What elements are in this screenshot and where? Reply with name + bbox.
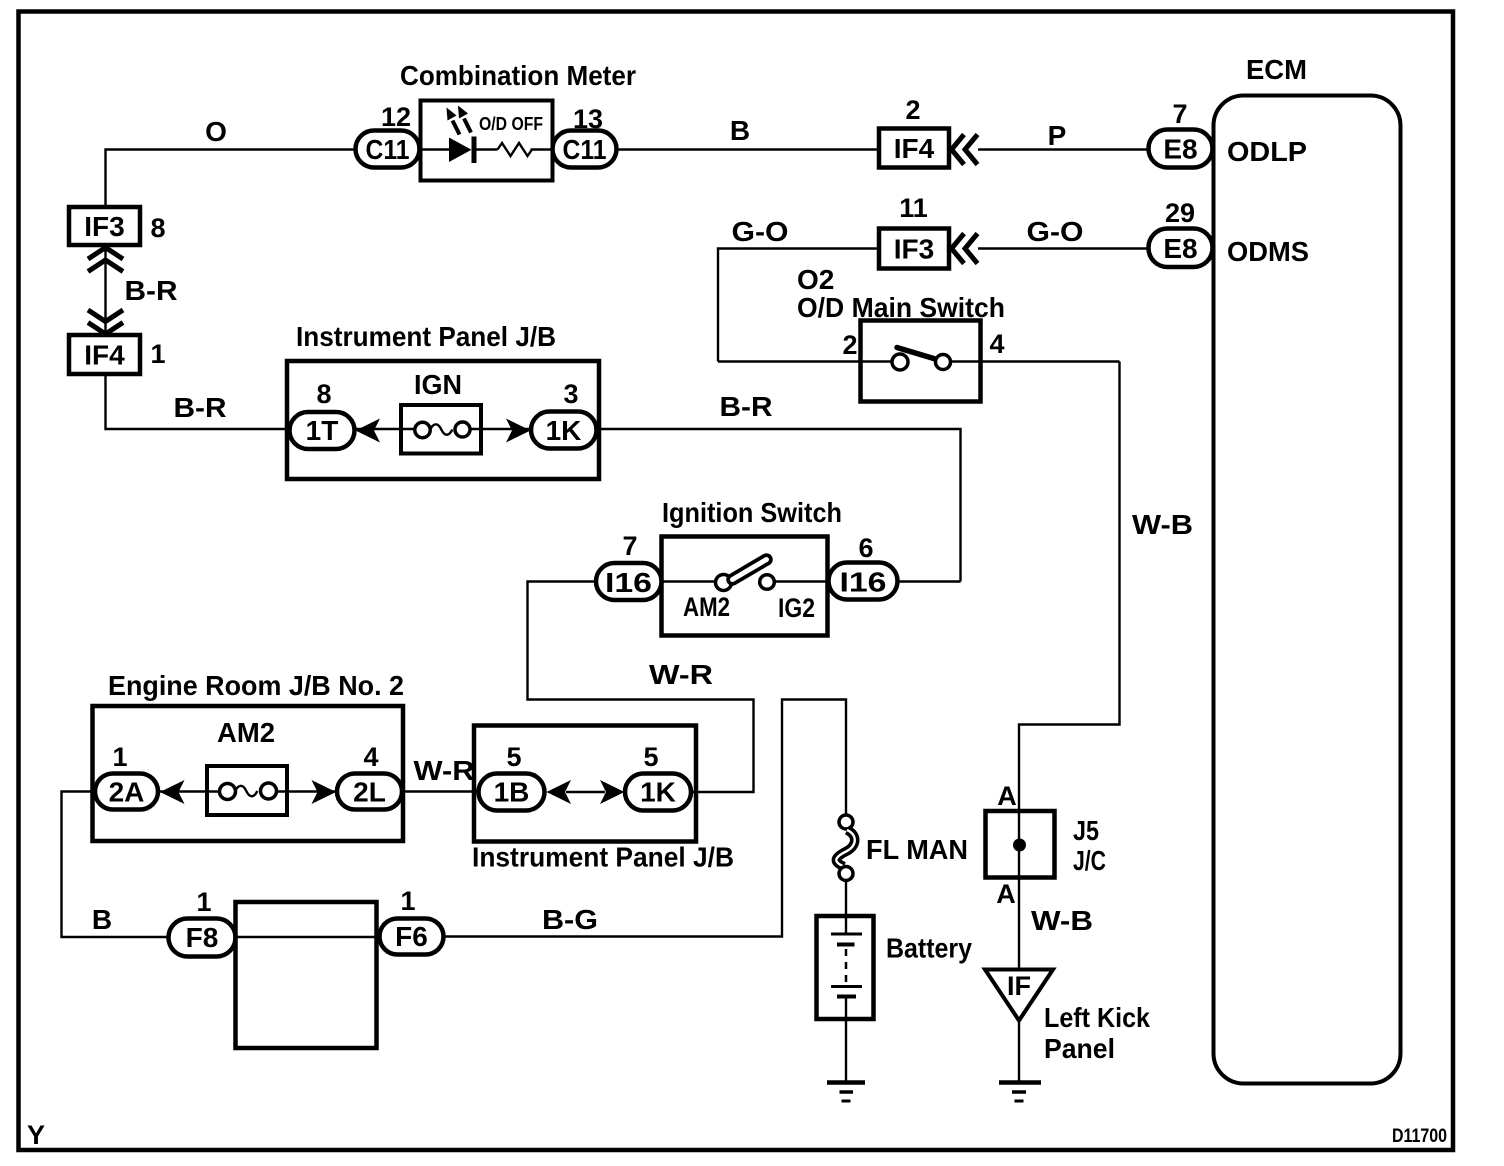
svg-text:1B: 1B bbox=[494, 777, 530, 808]
chevrons at IF3 bbox=[952, 234, 978, 264]
svg-text:W-R: W-R bbox=[414, 755, 475, 786]
Instrument Panel J/B no.2 bbox=[472, 726, 734, 873]
svg-text:P: P bbox=[1048, 120, 1067, 151]
svg-text:ODLP: ODLP bbox=[1227, 136, 1307, 167]
wire B (row 1) bbox=[617, 148, 880, 150]
wire triangle to ground bbox=[1018, 1021, 1020, 1082]
switch contact IG2 bbox=[760, 575, 775, 590]
wires inside ignition switch bbox=[662, 580, 716, 582]
svg-text:W-R: W-R bbox=[649, 659, 713, 690]
svg-text:2: 2 bbox=[905, 95, 920, 125]
svg-text:C11: C11 bbox=[563, 134, 607, 165]
svg-text:5: 5 bbox=[506, 742, 521, 772]
svg-text:8: 8 bbox=[316, 379, 331, 409]
arrows between 1B and 1K bbox=[547, 780, 625, 804]
connector 1B pin 5 bbox=[479, 742, 545, 811]
connector E8 pin 7 ODLP bbox=[1149, 99, 1308, 168]
svg-text:IF3: IF3 bbox=[84, 211, 124, 242]
connector 1K pin 3 bbox=[531, 379, 597, 449]
svg-text:2L: 2L bbox=[353, 777, 386, 808]
wire through relay block bbox=[236, 936, 380, 938]
connector 2L pin 4 bbox=[337, 742, 402, 810]
connector 1T pin 8 bbox=[290, 379, 355, 449]
arrow left ERJB bbox=[160, 780, 185, 804]
svg-text:O2: O2 bbox=[797, 264, 834, 295]
connector E8 pin 29 ODMS bbox=[1149, 198, 1310, 267]
wire O (row 1 left) bbox=[106, 150, 356, 208]
svg-text:B: B bbox=[730, 115, 750, 146]
fusible link FL MAN bbox=[836, 815, 968, 881]
wire inside ERJB bbox=[158, 790, 221, 792]
wire P (row 1) bbox=[978, 148, 1149, 150]
svg-text:13: 13 bbox=[573, 104, 603, 134]
svg-text:G-O: G-O bbox=[732, 216, 789, 247]
svg-text:2A: 2A bbox=[109, 777, 145, 808]
svg-text:4: 4 bbox=[989, 329, 1004, 359]
switch contact AM2 bbox=[716, 575, 732, 591]
wire G-O (row 2 right) bbox=[978, 247, 1149, 249]
svg-text:I16: I16 bbox=[605, 567, 652, 598]
connector IF3 pin 11 bbox=[879, 193, 949, 269]
relay block box bbox=[236, 902, 377, 1048]
wire W-B vertical bbox=[1019, 362, 1120, 970]
ground triangle IF Left Kick Panel bbox=[985, 970, 1150, 1065]
chevrons at IF4 bbox=[952, 135, 978, 165]
Instrument Panel J/B no.1 bbox=[287, 321, 599, 479]
svg-text:J5: J5 bbox=[1073, 815, 1099, 846]
svg-text:3: 3 bbox=[563, 379, 578, 409]
svg-text:7: 7 bbox=[622, 531, 637, 561]
connector I16 pin 6 bbox=[829, 533, 898, 600]
chevrons up below IF3 bbox=[88, 248, 123, 272]
svg-text:B: B bbox=[92, 904, 112, 935]
wire battery to ground bbox=[845, 998, 847, 1081]
wire FL MAN to battery bbox=[845, 881, 847, 935]
svg-text:7: 7 bbox=[1172, 99, 1187, 129]
wire I16-6 to riser bbox=[898, 580, 961, 582]
svg-text:ODMS: ODMS bbox=[1227, 236, 1309, 267]
O/D OFF indicator LED D1 bbox=[447, 106, 475, 164]
svg-text:B-R: B-R bbox=[125, 275, 178, 306]
svg-text:IGN: IGN bbox=[414, 369, 462, 400]
svg-text:8: 8 bbox=[150, 213, 165, 243]
svg-text:B-R: B-R bbox=[174, 392, 227, 423]
svg-text:Ignition Switch: Ignition Switch bbox=[662, 497, 842, 528]
svg-text:Instrument Panel J/B: Instrument Panel J/B bbox=[296, 321, 556, 352]
svg-text:Combination Meter: Combination Meter bbox=[400, 60, 636, 91]
connector C11 pin 12 bbox=[356, 102, 420, 168]
svg-text:E8: E8 bbox=[1163, 233, 1197, 264]
connector F6 pin 1 bbox=[380, 886, 444, 955]
connector C11 pin 13 bbox=[553, 104, 617, 168]
svg-text:G-O: G-O bbox=[1027, 216, 1084, 247]
svg-text:12: 12 bbox=[381, 102, 411, 132]
connector 1K pin 5 bbox=[625, 742, 691, 811]
arrow left J/B1 bbox=[356, 419, 381, 443]
wire W-R row7 bbox=[402, 790, 479, 792]
svg-text:IF3: IF3 bbox=[894, 234, 934, 265]
svg-text:29: 29 bbox=[1165, 198, 1195, 228]
resistor in meter bbox=[498, 143, 533, 156]
wire B from 2A to F8 bbox=[62, 792, 169, 938]
svg-text:B-R: B-R bbox=[720, 391, 773, 422]
svg-text:J/C: J/C bbox=[1073, 845, 1106, 876]
chevrons down above IF4 bbox=[88, 310, 123, 334]
svg-text:1T: 1T bbox=[306, 415, 339, 446]
wire B-G bbox=[444, 700, 847, 937]
connector F8 pin 1 bbox=[169, 887, 236, 957]
svg-text:4: 4 bbox=[363, 742, 378, 772]
svg-text:C11: C11 bbox=[366, 134, 410, 165]
ground left kick panel bbox=[999, 1083, 1041, 1102]
switch lever bbox=[733, 560, 767, 580]
combination meter box bbox=[421, 101, 553, 181]
svg-text:A: A bbox=[997, 781, 1017, 811]
svg-text:F8: F8 bbox=[186, 922, 219, 953]
svg-text:Battery: Battery bbox=[886, 933, 972, 964]
svg-text:F6: F6 bbox=[395, 921, 428, 952]
svg-text:6: 6 bbox=[858, 533, 873, 563]
arrow right ERJB bbox=[312, 780, 337, 804]
fuse AM2 bbox=[207, 717, 287, 815]
wire B-R vertical bbox=[104, 245, 106, 335]
ECM block U-ECM bbox=[1214, 54, 1401, 1084]
svg-text:A: A bbox=[996, 879, 1016, 909]
svg-text:AM2: AM2 bbox=[683, 592, 730, 622]
svg-text:ECM: ECM bbox=[1246, 54, 1307, 85]
svg-text:IF4: IF4 bbox=[894, 133, 935, 164]
svg-text:11: 11 bbox=[899, 193, 928, 223]
junction J5 J/C bbox=[986, 781, 1107, 909]
connector 2A pin 1 bbox=[95, 742, 158, 810]
wire inside meter bbox=[421, 148, 452, 150]
svg-text:Instrument Panel J/B: Instrument Panel J/B bbox=[472, 842, 734, 873]
battery bbox=[817, 916, 973, 1019]
wire inside J/B1 bbox=[355, 428, 417, 430]
svg-text:Y: Y bbox=[27, 1120, 45, 1150]
svg-text:Left Kick: Left Kick bbox=[1044, 1002, 1150, 1033]
svg-text:B-G: B-G bbox=[542, 904, 598, 935]
svg-text:1K: 1K bbox=[640, 777, 676, 808]
svg-text:O: O bbox=[205, 116, 227, 147]
svg-text:E8: E8 bbox=[1163, 134, 1197, 165]
svg-text:5: 5 bbox=[643, 742, 658, 772]
wire B-R to 1T bbox=[106, 375, 290, 430]
connector IF4 pin 1 bbox=[69, 335, 166, 374]
svg-text:1: 1 bbox=[196, 887, 211, 917]
wire B-R row4 right bbox=[597, 429, 961, 582]
O/D Main Switch O2 bbox=[718, 264, 1120, 402]
svg-text:O/D OFF: O/D OFF bbox=[479, 114, 543, 134]
connector IF3 pin 8 bbox=[69, 207, 166, 245]
ground battery bbox=[827, 1083, 865, 1102]
Ignition Switch bbox=[662, 497, 843, 636]
wire G-O (row 2 left) bbox=[718, 249, 879, 362]
svg-text:IF: IF bbox=[1007, 971, 1031, 1001]
svg-text:IF4: IF4 bbox=[84, 340, 125, 371]
svg-text:1: 1 bbox=[112, 742, 127, 772]
wire W-R path bbox=[528, 582, 754, 793]
svg-text:Panel: Panel bbox=[1044, 1033, 1115, 1064]
svg-text:W-B: W-B bbox=[1132, 509, 1193, 540]
svg-text:D11700: D11700 bbox=[1392, 1126, 1447, 1147]
svg-text:1K: 1K bbox=[546, 415, 582, 446]
svg-text:1: 1 bbox=[400, 886, 415, 916]
svg-text:1: 1 bbox=[150, 339, 165, 369]
svg-text:W-B: W-B bbox=[1031, 905, 1093, 936]
svg-text:FL MAN: FL MAN bbox=[866, 834, 968, 865]
connector IF4 pin 2 bbox=[879, 95, 949, 168]
fuse IGN bbox=[401, 369, 481, 454]
connector I16 pin 7 bbox=[596, 531, 662, 600]
svg-text:AM2: AM2 bbox=[217, 717, 275, 748]
svg-text:I16: I16 bbox=[840, 567, 887, 598]
svg-text:2: 2 bbox=[842, 330, 857, 360]
svg-text:Engine Room J/B No. 2: Engine Room J/B No. 2 bbox=[108, 670, 404, 701]
arrow right J/B1 bbox=[506, 419, 531, 443]
svg-text:IG2: IG2 bbox=[778, 593, 815, 623]
Engine Room J/B No. 2 bbox=[93, 670, 405, 841]
